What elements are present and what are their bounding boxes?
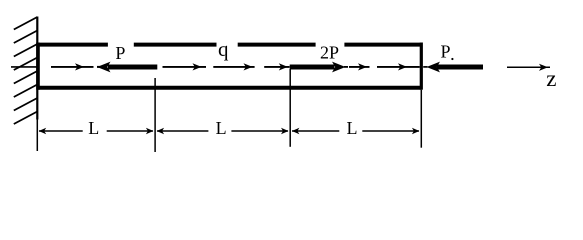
svg-text:P: P (115, 43, 125, 63)
dimension line span 2 (157, 128, 289, 134)
dimension line span 3 (292, 128, 420, 134)
force arrow P at free end (left-pointing thick) (423, 62, 483, 73)
distributed load q arrow 5 (349, 63, 370, 70)
bar top flange segment 3 (238, 43, 316, 47)
bar left end cap (36, 43, 40, 90)
svg-text:L: L (347, 118, 358, 138)
distributed load q arrow 1 (51, 63, 94, 70)
wall line (36, 17, 38, 120)
node: reference line at x=421 (420, 90, 422, 148)
distributed load q arrow 4 (264, 63, 289, 70)
bar top flange segment 4 (344, 43, 420, 47)
wall hatching (14, 17, 38, 124)
node: reference line at x=155 (154, 78, 156, 152)
distributed load q arrow 2 (163, 63, 207, 70)
distributed load q arrow 6 (377, 63, 420, 70)
node: reference line at x=290 (289, 69, 291, 147)
wire: axis lead-in through wall (11, 66, 37, 68)
bar bottom flange (38, 86, 422, 90)
force arrow 2P (right-pointing thick) (290, 62, 348, 73)
svg-text:z: z (546, 66, 556, 91)
bar right end cap (420, 43, 423, 90)
svg-text:P: P (440, 42, 450, 62)
bar top flange segment 2 (134, 43, 217, 47)
z axis arrow (507, 64, 550, 71)
dimension line span 1 (39, 128, 154, 134)
distributed load q arrow 3 (213, 63, 254, 70)
wire: wall reference extension line (36, 120, 38, 152)
svg-text:L: L (216, 118, 227, 138)
label P period dot (451, 58, 453, 60)
svg-text:2P: 2P (320, 42, 339, 62)
svg-text:q: q (218, 37, 229, 61)
bar top flange segment 1 (38, 43, 108, 47)
svg-text:L: L (88, 118, 99, 138)
force arrow P (left-pointing thick) (97, 62, 157, 73)
